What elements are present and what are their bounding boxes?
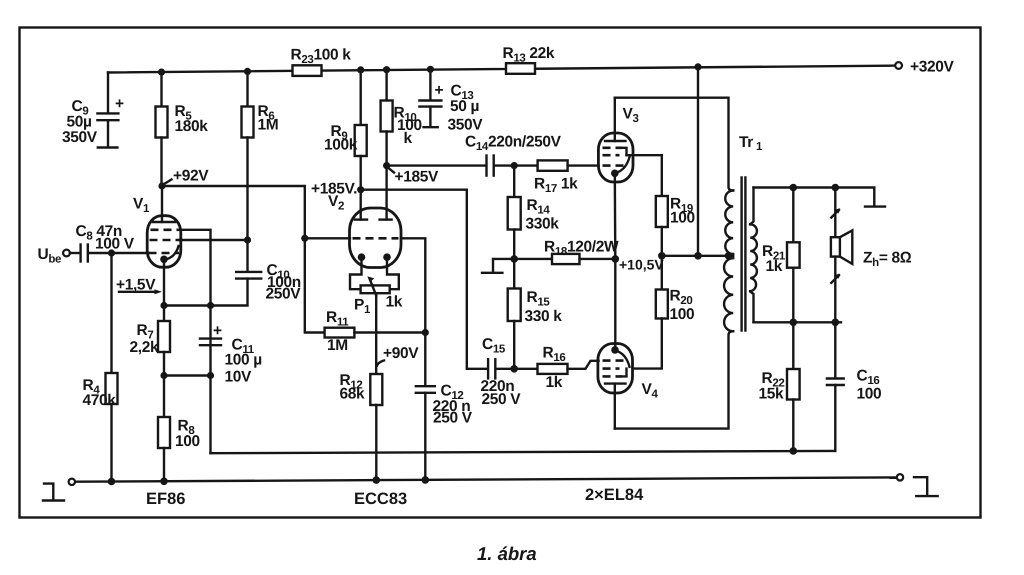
resistor R23 <box>291 47 352 76</box>
node speaker top <box>832 184 840 192</box>
wire B+ feed to transformer centre tap <box>697 67 699 256</box>
svg-text:ECC83: ECC83 <box>354 490 407 508</box>
node R8 ground <box>160 478 168 486</box>
node C12 ground <box>422 476 430 484</box>
resistor R9 <box>324 70 367 190</box>
ground stub at phase splitter <box>493 259 514 272</box>
svg-text:1M: 1M <box>258 117 279 134</box>
resistor R18 <box>514 239 619 265</box>
resistor R13 <box>503 45 555 74</box>
wire negative feedback line <box>211 451 836 453</box>
svg-text:100: 100 <box>670 306 695 323</box>
node C10 bottom on feedback branch <box>207 302 214 309</box>
wire cathode link to C11 branch <box>164 304 211 306</box>
resistor R21 <box>762 188 800 323</box>
node R6/C10/V1 screen <box>244 236 251 243</box>
capacitor C12 <box>416 383 473 480</box>
wire V1 anode to V2 grid (direct coupling) <box>162 186 305 238</box>
resistor R20 <box>633 256 694 369</box>
tube V2 ECC83 <box>328 193 401 268</box>
wire V4 anode to transformer primary bottom <box>615 331 733 428</box>
wire ground rail <box>75 477 896 481</box>
wire V1 screen to R6/C10 node <box>180 239 248 241</box>
node junction R10 on top rail <box>383 66 390 73</box>
node R22 on feedback line <box>790 447 798 455</box>
node +92V (V1 anode) <box>158 168 209 190</box>
wire V4 cathode to +10,5V node <box>614 259 616 350</box>
resistor R17 <box>514 160 598 195</box>
svg-text:+: + <box>115 96 124 113</box>
node junction transformer centre-tap feed on top rail <box>694 63 701 70</box>
wire V2 right grid to R11/C12 <box>401 238 425 386</box>
terminal ground right <box>897 474 903 480</box>
svg-text:+320V: +320V <box>910 59 955 76</box>
resistor R4 <box>83 253 118 482</box>
svg-text:100: 100 <box>175 433 200 450</box>
svg-text:+92V: +92V <box>173 168 209 185</box>
node R21 top <box>790 184 798 192</box>
svg-text:100 µ: 100 µ <box>225 352 262 369</box>
terminal ground left <box>69 479 75 485</box>
node R12 ground <box>373 476 381 484</box>
wire R7 bottom link to C11 <box>164 374 211 376</box>
resistor R8 <box>158 376 200 482</box>
terminal +320V <box>895 59 954 76</box>
svg-text:+10,5V: +10,5V <box>619 257 664 273</box>
svg-text:330 k: 330 k <box>525 308 563 325</box>
terminal input Ube <box>38 246 70 266</box>
svg-text:100 V: 100 V <box>95 236 135 253</box>
resistor R14 <box>508 166 560 259</box>
resistor R16 <box>514 345 598 392</box>
node C11 bottom / R7 link <box>207 372 214 379</box>
transformer Tr1 core <box>740 178 742 331</box>
svg-text:68k: 68k <box>340 386 366 403</box>
capacitor C11 <box>200 323 262 386</box>
node C14/R17/R14 <box>511 162 518 169</box>
svg-text:350V: 350V <box>448 117 484 134</box>
resistor R6 <box>242 71 279 240</box>
resistor R5 <box>156 72 209 186</box>
node R15/C15/R16 <box>510 365 518 373</box>
resistor R22 <box>759 322 800 451</box>
capacitor C10 <box>211 240 302 306</box>
svg-text:1k: 1k <box>766 258 783 275</box>
svg-text:470k: 470k <box>83 392 117 409</box>
resistor R7 <box>130 306 171 376</box>
node junction R9 on top rail <box>357 66 364 73</box>
resistor R11 <box>305 238 426 354</box>
speaker <box>831 188 912 323</box>
svg-text:10V: 10V <box>225 369 253 386</box>
svg-text:180k: 180k <box>175 118 209 135</box>
node B+ vertical on centre-tap line <box>694 252 702 260</box>
node +185V at R10/C14 <box>383 162 439 186</box>
resistor R19 <box>656 155 695 256</box>
svg-text:250 V: 250 V <box>482 391 522 408</box>
tube V1 EF86 <box>133 186 181 267</box>
transformer Tr1 secondary winding <box>750 188 757 323</box>
wire V1 g3 to feedback line <box>179 230 211 453</box>
node +10,5V cathode junction <box>612 255 665 272</box>
transformer Tr1 primary winding <box>724 134 763 331</box>
wire V3 screen to R19 <box>627 154 662 156</box>
svg-text:1k: 1k <box>386 294 403 311</box>
node V2 left grid <box>301 235 308 242</box>
svg-text:250 V: 250 V <box>433 410 473 427</box>
svg-text:350V: 350V <box>62 129 98 146</box>
ground chassis left <box>43 484 64 501</box>
svg-text:100k: 100k <box>324 137 358 154</box>
potentiometer P1 <box>350 257 403 316</box>
wire V2 left anode to C15 branch <box>361 190 488 369</box>
capacitor C16 <box>827 322 881 451</box>
wire secondary bottom line <box>754 321 842 323</box>
capacitor C13 <box>419 69 483 133</box>
tube V4 EL84 <box>598 344 659 429</box>
svg-text:50µ: 50µ <box>67 114 92 131</box>
ground chassis at secondary top <box>865 205 885 207</box>
node R21 bottom <box>790 319 798 327</box>
resistor R15 <box>508 259 563 369</box>
label +1,5V with arrow <box>116 277 162 295</box>
svg-text:R13 22k: R13 22k <box>503 45 555 65</box>
resistor R12 <box>340 296 383 481</box>
node R14/R15/R18 <box>510 255 518 263</box>
node centre tap at winding <box>725 252 733 260</box>
label +90V with leader <box>377 345 419 366</box>
svg-text:+185V: +185V <box>395 169 440 186</box>
svg-text:+90V: +90V <box>383 345 419 362</box>
wire secondary top line <box>754 188 875 207</box>
svg-text:100: 100 <box>857 386 882 403</box>
svg-text:2,2k: 2,2k <box>130 339 159 356</box>
node junction C13 on top rail <box>427 66 434 73</box>
wire V3 anode to transformer primary top <box>615 98 733 191</box>
node R19/R20 <box>658 252 666 260</box>
svg-text:330k: 330k <box>526 216 560 233</box>
capacitor C8 <box>70 223 135 262</box>
capacitor C14 <box>387 134 562 176</box>
node junction R6 on top rail <box>244 68 251 75</box>
svg-text:R17 1k: R17 1k <box>534 176 578 196</box>
node R11 right / C12 <box>422 329 429 336</box>
tube V3 EL84 <box>598 98 638 182</box>
svg-text:50 µ: 50 µ <box>450 98 479 115</box>
wire screen node to transformer centre tap <box>662 255 733 257</box>
ground chassis right <box>914 477 938 496</box>
capacitor C9 <box>62 73 124 148</box>
node grid input <box>108 249 115 256</box>
svg-text:EF86: EF86 <box>146 490 185 508</box>
svg-text:100: 100 <box>670 210 695 227</box>
svg-text:250V: 250V <box>266 286 302 303</box>
svg-text:k: k <box>404 130 413 147</box>
capacitor C15 <box>481 336 522 408</box>
svg-text:Tr: Tr <box>739 134 753 151</box>
wire V1 cathode down <box>163 259 165 305</box>
node speaker bottom / C16 <box>832 319 840 327</box>
svg-text:1k: 1k <box>546 374 563 391</box>
svg-text:Zh= 8Ω: Zh= 8Ω <box>863 250 912 270</box>
svg-text:R23100 k: R23100 k <box>291 47 352 67</box>
wire input node to V1 grid <box>112 252 149 254</box>
node V2 left anode / R9 <box>357 186 364 193</box>
node R7 bottom link <box>160 372 167 379</box>
resistor R10 <box>381 70 422 220</box>
border frame <box>20 28 981 518</box>
wire V3 cathode down to +10,5V node <box>614 173 617 259</box>
svg-text:+: + <box>213 323 222 340</box>
wire V2 left anode lead <box>360 190 362 220</box>
svg-text:15k: 15k <box>759 386 785 403</box>
node V1 cathode link <box>160 302 167 309</box>
wire grid node to V2 envelope <box>305 237 350 239</box>
svg-text:1M: 1M <box>327 337 348 354</box>
svg-text:2×EL84: 2×EL84 <box>585 486 644 504</box>
node junction R5 on top rail <box>158 69 165 76</box>
svg-text:+: + <box>435 82 444 99</box>
svg-text:1. ábra: 1. ábra <box>477 543 537 564</box>
svg-text:1: 1 <box>756 141 763 153</box>
node R4 ground <box>108 478 116 486</box>
wire +320V top supply rail <box>108 66 895 73</box>
